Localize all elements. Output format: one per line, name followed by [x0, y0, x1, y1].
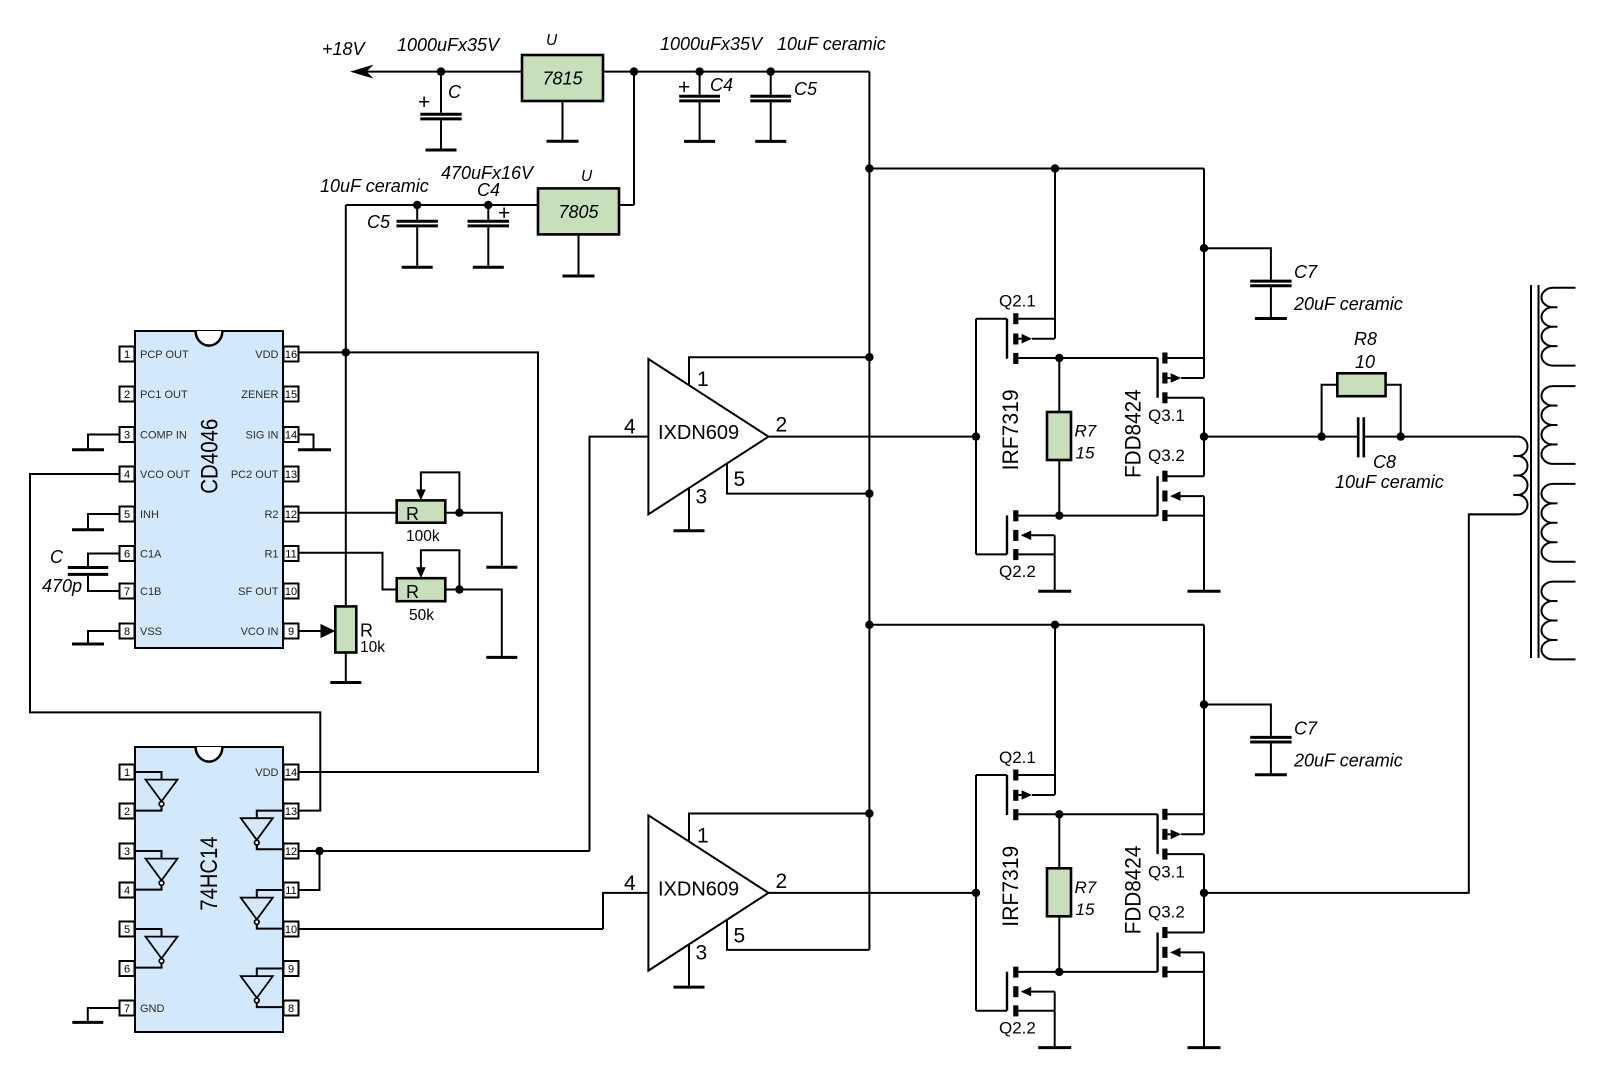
svg-text:11: 11 [285, 885, 296, 897]
svg-text:1000uFx35V: 1000uFx35V [397, 35, 501, 55]
svg-text:CD4046: CD4046 [197, 419, 224, 494]
svg-text:3: 3 [124, 430, 130, 442]
svg-text:R8: R8 [1354, 329, 1377, 349]
svg-text:COMP IN: COMP IN [140, 430, 187, 442]
svg-text:10: 10 [285, 586, 297, 598]
svg-text:6: 6 [124, 549, 130, 561]
svg-text:C8: C8 [1373, 452, 1396, 472]
svg-text:C4: C4 [477, 180, 500, 200]
svg-text:10uF ceramic: 10uF ceramic [1335, 472, 1444, 492]
svg-text:VDD: VDD [255, 767, 278, 779]
svg-text:PCP OUT: PCP OUT [140, 349, 189, 361]
svg-text:SIG IN: SIG IN [245, 430, 278, 442]
svg-text:C5: C5 [367, 212, 391, 232]
svg-text:13: 13 [285, 469, 297, 481]
svg-text:8: 8 [288, 1003, 294, 1015]
svg-text:PC2 OUT: PC2 OUT [231, 469, 279, 481]
svg-text:R1: R1 [264, 549, 278, 561]
svg-text:10k: 10k [360, 639, 385, 656]
svg-text:1: 1 [124, 349, 130, 361]
svg-text:SF OUT: SF OUT [238, 586, 279, 598]
svg-text:C: C [448, 82, 462, 102]
svg-text:13: 13 [285, 806, 297, 818]
svg-text:2: 2 [124, 389, 130, 401]
svg-text:9: 9 [288, 626, 294, 638]
svg-text:8: 8 [124, 626, 130, 638]
svg-text:10uF ceramic: 10uF ceramic [777, 34, 886, 54]
svg-text:PC1 OUT: PC1 OUT [140, 389, 188, 401]
svg-text:U: U [581, 168, 593, 185]
svg-text:2: 2 [124, 806, 130, 818]
svg-text:100k: 100k [406, 528, 440, 545]
svg-text:VSS: VSS [140, 626, 162, 638]
svg-text:C5: C5 [794, 79, 818, 99]
svg-text:R: R [360, 621, 373, 641]
svg-text:3: 3 [124, 846, 130, 858]
svg-text:16: 16 [285, 349, 297, 361]
svg-text:INH: INH [140, 509, 159, 521]
svg-text:GND: GND [140, 1003, 165, 1015]
svg-text:R2: R2 [264, 509, 278, 521]
svg-text:C1B: C1B [140, 586, 161, 598]
svg-text:10: 10 [1355, 352, 1375, 372]
svg-text:U: U [546, 32, 558, 49]
svg-text:5: 5 [124, 509, 130, 521]
svg-text:4: 4 [124, 885, 130, 897]
svg-text:12: 12 [285, 509, 297, 521]
svg-text:ZENER: ZENER [241, 389, 278, 401]
svg-text:5: 5 [124, 924, 130, 936]
svg-text:+: + [498, 202, 510, 225]
svg-text:15: 15 [285, 389, 297, 401]
svg-text:VCO OUT: VCO OUT [140, 469, 190, 481]
svg-text:74HC14: 74HC14 [196, 837, 223, 911]
svg-text:R: R [406, 582, 419, 602]
svg-text:R: R [406, 504, 419, 524]
svg-text:12: 12 [285, 846, 297, 858]
svg-text:VCO IN: VCO IN [241, 626, 279, 638]
svg-text:1000uFx35V: 1000uFx35V [660, 34, 764, 54]
svg-text:10uF ceramic: 10uF ceramic [320, 176, 429, 196]
svg-text:10: 10 [285, 924, 297, 936]
svg-text:50k: 50k [409, 607, 434, 624]
svg-text:14: 14 [285, 767, 297, 779]
svg-text:C1A: C1A [140, 549, 162, 561]
svg-text:7805: 7805 [558, 202, 599, 222]
svg-text:7: 7 [124, 586, 130, 598]
svg-text:+18V: +18V [322, 39, 367, 59]
svg-text:1: 1 [124, 767, 130, 779]
svg-text:9: 9 [288, 964, 294, 976]
svg-text:11: 11 [285, 549, 296, 561]
svg-text:14: 14 [285, 430, 297, 442]
svg-text:+: + [678, 76, 690, 99]
svg-text:C: C [50, 547, 64, 567]
svg-text:VDD: VDD [255, 349, 278, 361]
svg-text:6: 6 [124, 964, 130, 976]
svg-text:C4: C4 [710, 75, 733, 95]
svg-text:7815: 7815 [542, 69, 583, 89]
svg-text:470p: 470p [42, 576, 82, 596]
svg-text:+: + [418, 91, 430, 114]
svg-text:7: 7 [124, 1003, 130, 1015]
svg-text:4: 4 [124, 469, 130, 481]
